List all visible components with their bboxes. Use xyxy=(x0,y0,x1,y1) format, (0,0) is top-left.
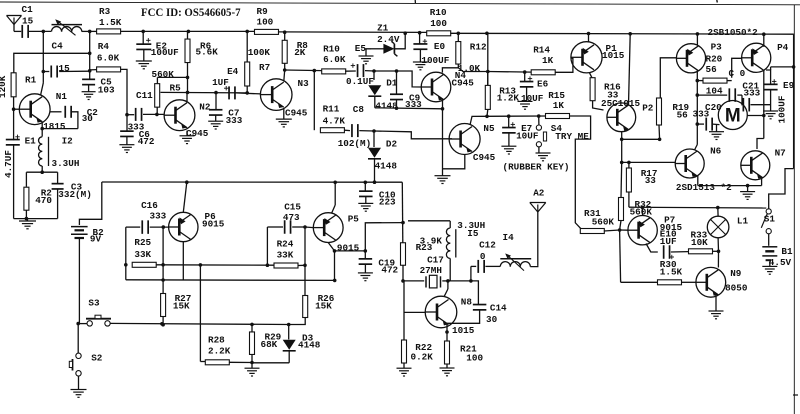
value 100UF (E0) xyxy=(421,55,449,66)
transistor P5 9015 xyxy=(313,213,343,243)
svg-text:100: 100 xyxy=(430,18,447,29)
svg-text:C945: C945 xyxy=(186,128,209,139)
transistor P4 2SB1050 xyxy=(742,43,771,72)
wire N6 collector xyxy=(695,145,698,151)
wire xyxy=(235,91,260,95)
svg-text:N5: N5 xyxy=(483,123,495,134)
svg-text:C945: C945 xyxy=(285,108,308,119)
svg-text:1UF: 1UF xyxy=(660,236,677,247)
label C3 xyxy=(71,181,83,192)
value 470 xyxy=(35,195,52,206)
resistor R22 0.2K xyxy=(402,340,407,363)
svg-text:I2: I2 xyxy=(62,135,74,146)
wire xyxy=(485,109,489,118)
label Z1 xyxy=(377,23,389,34)
switch S3 xyxy=(76,315,111,326)
svg-text:100: 100 xyxy=(466,352,483,363)
ground (Z1) xyxy=(359,56,374,64)
value 333 (C20) xyxy=(693,109,710,120)
label N1 xyxy=(56,91,68,102)
wire xyxy=(593,101,604,110)
wire xyxy=(251,355,253,363)
svg-text:C17: C17 xyxy=(427,255,444,266)
svg-text:N2: N2 xyxy=(199,101,211,112)
resistor R5 560K xyxy=(155,84,160,108)
label R22 xyxy=(415,342,432,353)
switch S1 xyxy=(761,209,771,246)
wire xyxy=(14,217,58,221)
label N3 xyxy=(298,78,310,89)
value 30 (C2) xyxy=(82,113,94,124)
label C20 xyxy=(705,102,722,113)
wire P3 collector xyxy=(696,34,698,45)
label R14 xyxy=(533,45,550,56)
label R28 xyxy=(208,334,225,345)
svg-text:100: 100 xyxy=(257,16,274,27)
wire xyxy=(110,322,289,326)
resistor R6 5.6K xyxy=(185,31,190,62)
ground (E6) xyxy=(518,101,533,109)
wire N6/N7 emitters xyxy=(698,176,762,188)
label R12 xyxy=(470,41,487,52)
electrolytic E0 100UF xyxy=(413,33,427,62)
label E7 xyxy=(521,123,532,134)
value 10UF (E6) xyxy=(521,93,544,104)
wire xyxy=(717,251,719,267)
resistor R10b 6.0K xyxy=(322,69,346,74)
svg-text:E6: E6 xyxy=(537,78,549,89)
svg-text:2.2K: 2.2K xyxy=(208,346,231,357)
label R31 xyxy=(584,208,601,219)
value 333 (C7) xyxy=(226,115,243,126)
ground (E2) xyxy=(136,61,152,69)
capacitor C19 472 xyxy=(359,251,373,273)
wire xyxy=(555,58,573,72)
page top border xyxy=(0,0,800,5)
svg-text:100UF: 100UF xyxy=(421,55,449,66)
wire P6 emitter xyxy=(182,242,184,280)
label R2 xyxy=(41,188,53,199)
svg-text:4148: 4148 xyxy=(375,161,398,172)
label R10 xyxy=(430,7,447,18)
label R4 xyxy=(98,41,110,52)
value 1K (R14) xyxy=(542,55,554,66)
label R23 xyxy=(416,242,433,253)
value 6.0K (R10b) xyxy=(323,54,346,65)
svg-text:15: 15 xyxy=(22,16,34,27)
svg-text:4148: 4148 xyxy=(375,101,398,112)
svg-text:R28: R28 xyxy=(208,334,225,345)
label D3 xyxy=(302,333,314,344)
capacitor C15 473 xyxy=(267,220,306,234)
variable inductor (tuning coil) xyxy=(52,19,83,35)
label N7 xyxy=(775,147,786,158)
wire N8 emitter xyxy=(445,325,449,342)
label R3 xyxy=(99,6,111,17)
label R25 xyxy=(134,237,151,248)
wire xyxy=(375,106,445,110)
wire N5 base xyxy=(374,131,452,139)
wire N5 emitter xyxy=(443,155,465,169)
svg-text:R20: R20 xyxy=(706,53,723,64)
electrolytic E6 10UF xyxy=(520,72,534,101)
value 1015 (N8) xyxy=(452,325,475,336)
label S4 xyxy=(551,123,563,134)
ground (left column) xyxy=(19,219,36,229)
label C1 xyxy=(22,4,34,15)
ground (C7) xyxy=(208,121,223,129)
antenna A2 xyxy=(530,203,546,266)
wire xyxy=(229,361,254,365)
resistor R20 56 xyxy=(703,78,727,83)
label N8 xyxy=(461,296,473,307)
svg-text:10UF: 10UF xyxy=(516,131,539,142)
wire P6 collector xyxy=(183,182,187,212)
resistor R11 4.7K xyxy=(314,71,350,133)
svg-text:C11: C11 xyxy=(136,90,153,101)
resistor R17 33 xyxy=(626,161,631,192)
value 33 (R16) xyxy=(607,89,619,100)
inductor I5 3.3UH xyxy=(408,221,456,283)
svg-text:R10: R10 xyxy=(430,7,447,18)
ground (R21) xyxy=(440,364,455,376)
svg-text:R23: R23 xyxy=(416,242,433,253)
transistor N2 C945 xyxy=(164,100,195,131)
label C9 xyxy=(409,92,421,103)
value C945 (N4) xyxy=(452,77,475,88)
svg-text:8050: 8050 xyxy=(725,283,748,294)
label C 0 xyxy=(729,68,746,79)
zener Z1 2.4V xyxy=(366,33,405,56)
label R13 xyxy=(499,85,516,96)
value 56 (R19) xyxy=(677,110,689,121)
value 100UF (E9) xyxy=(777,95,788,123)
wire R6 to R5 xyxy=(157,63,189,93)
label D1 xyxy=(386,78,398,89)
wire P5 emitter xyxy=(328,243,336,283)
resistor R13 1.2K xyxy=(485,85,490,109)
wire N6 base xyxy=(622,161,676,163)
capacitor C21 333 xyxy=(742,95,771,111)
svg-text:C 0: C 0 xyxy=(729,68,746,79)
svg-text:25C1015: 25C1015 xyxy=(601,98,640,109)
label R16 xyxy=(604,82,621,93)
wire detector node xyxy=(372,69,376,80)
transistor N9 8050 xyxy=(696,267,726,297)
wire main supply rail xyxy=(450,32,794,37)
value 68K (R29) xyxy=(261,339,278,350)
value 9015 (P5) xyxy=(337,243,360,254)
label E9 xyxy=(783,80,795,91)
svg-text:4.7UF: 4.7UF xyxy=(3,150,14,178)
resistor R28 2.2K xyxy=(205,360,229,365)
wire N4 base xyxy=(374,71,421,87)
svg-text:N3: N3 xyxy=(298,78,310,89)
svg-text:3.3UH: 3.3UH xyxy=(52,158,80,169)
wire xyxy=(488,70,532,74)
electrolytic E5 0.1UF xyxy=(345,63,374,77)
wire R4 to lower section xyxy=(121,69,129,131)
value 1815 xyxy=(43,121,66,132)
wire xyxy=(77,324,79,353)
svg-text:1.2K: 1.2K xyxy=(497,92,520,103)
wire P4 base xyxy=(732,58,742,78)
svg-text:333: 333 xyxy=(150,211,167,222)
value 472 (C19) xyxy=(381,265,398,276)
transistor P2 25C1015 xyxy=(607,103,636,132)
svg-text:R4: R4 xyxy=(98,41,110,52)
wire P2 collector xyxy=(629,34,631,105)
svg-text:R1: R1 xyxy=(25,75,37,86)
label P1 xyxy=(606,43,618,54)
wire P4 collector branch xyxy=(763,34,765,47)
svg-text:473: 473 xyxy=(283,212,300,223)
value 2.4V xyxy=(377,34,400,45)
transistor N7 2SD1513 xyxy=(741,151,770,180)
svg-text:560K: 560K xyxy=(152,69,175,80)
svg-text:N9: N9 xyxy=(730,268,742,279)
svg-text:9015: 9015 xyxy=(337,243,360,254)
svg-text:R11: R11 xyxy=(323,103,340,114)
svg-text:6.0K: 6.0K xyxy=(97,52,120,63)
value 333 (C21) xyxy=(744,88,761,99)
svg-text:120K: 120K xyxy=(0,75,8,98)
wire P5 base xyxy=(305,226,313,229)
value 102(M) xyxy=(338,138,371,149)
ground (N2) xyxy=(180,131,195,144)
label C16 xyxy=(141,200,158,211)
wire collector row xyxy=(161,91,248,95)
label C10 xyxy=(379,189,396,200)
svg-text:2SB1050*2: 2SB1050*2 xyxy=(708,27,759,38)
switch S2 xyxy=(69,353,81,389)
resistor R3 1.5K xyxy=(97,29,121,34)
resistor R2 470 xyxy=(24,187,29,218)
wire P7 collector xyxy=(646,244,658,253)
ground (C19) xyxy=(358,273,373,281)
wire xyxy=(604,228,621,232)
value 560K (R32) xyxy=(630,207,653,218)
wire xyxy=(757,70,764,149)
label B1 xyxy=(781,246,793,257)
value C945 (N5) xyxy=(473,152,496,163)
svg-text:R25: R25 xyxy=(134,237,151,248)
svg-text:R12: R12 xyxy=(470,41,487,52)
label R32 xyxy=(635,199,652,210)
variable inductor I4 xyxy=(500,253,538,270)
wire xyxy=(283,63,322,72)
wire xyxy=(266,227,270,267)
wire xyxy=(696,79,732,83)
capacitor 104 xyxy=(697,88,742,102)
svg-text:2.4V: 2.4V xyxy=(377,34,400,45)
svg-text:472: 472 xyxy=(381,265,398,276)
transistor N8 1015 xyxy=(425,296,457,328)
battery B2 9V xyxy=(71,227,88,324)
capacitor C20 333 xyxy=(697,118,719,131)
svg-text:P2: P2 xyxy=(642,103,654,114)
svg-text:B1: B1 xyxy=(781,246,793,257)
resistor R32 560K xyxy=(619,162,624,220)
value 472 (C6) xyxy=(138,136,155,147)
wire xyxy=(42,31,46,73)
value 4148 (D1) xyxy=(375,101,398,112)
svg-text:15K: 15K xyxy=(173,300,190,311)
ground (C6) xyxy=(119,145,134,153)
svg-text:S1: S1 xyxy=(764,214,776,225)
svg-text:(RUBBER KEY): (RUBBER KEY) xyxy=(503,161,570,172)
label R11 xyxy=(323,103,340,114)
value 120K xyxy=(0,75,8,98)
ground (A2 base) xyxy=(78,388,80,390)
label E10 xyxy=(660,229,677,240)
svg-text:N1: N1 xyxy=(56,91,68,102)
value 1.5K (R30) xyxy=(660,266,683,277)
svg-text:472: 472 xyxy=(138,136,155,147)
label C5 xyxy=(101,76,113,87)
svg-text:C4: C4 xyxy=(52,41,64,52)
capacitor C14 30 xyxy=(447,281,486,323)
label R29 xyxy=(265,332,282,343)
capacitor C16 333 xyxy=(126,220,169,234)
label I5 xyxy=(467,228,479,239)
ground (C5) xyxy=(82,92,96,100)
resistor R14 1K xyxy=(531,70,555,75)
motor M xyxy=(718,101,747,130)
label R33 xyxy=(691,230,708,241)
resistor R16 33 xyxy=(590,73,596,101)
wire lower supply rail xyxy=(102,180,403,184)
svg-text:333: 333 xyxy=(405,99,422,110)
label S1 xyxy=(764,214,776,225)
transistor N5 C945 xyxy=(449,124,480,155)
ground (C20/motor) xyxy=(709,124,724,139)
label P7 xyxy=(664,214,675,225)
value 33K (R24) xyxy=(277,250,294,261)
svg-text:P5: P5 xyxy=(348,214,360,225)
value 100K (R7) xyxy=(248,47,271,58)
switch S4 xyxy=(536,116,546,153)
svg-text:1K: 1K xyxy=(553,100,565,111)
value 4.7K (R11) xyxy=(323,115,346,126)
wire R15 to R31 xyxy=(570,116,591,229)
value 560K (R31) xyxy=(592,217,615,228)
value 8050 xyxy=(725,283,748,294)
value 1.0K (R12) xyxy=(458,63,481,74)
svg-text:R14: R14 xyxy=(533,45,550,56)
transistor P6 9015 xyxy=(169,212,198,241)
value 15K (R27) xyxy=(173,300,190,311)
transistor N6 2SD1513 xyxy=(675,149,704,178)
wire rail to R13 xyxy=(486,33,490,85)
wire N1 collector xyxy=(41,72,44,96)
svg-text:E4: E4 xyxy=(227,66,239,77)
value 15K (R26) xyxy=(315,301,332,312)
svg-text:C945: C945 xyxy=(452,77,475,88)
label I4 xyxy=(503,232,515,243)
label C6 xyxy=(139,129,151,140)
svg-text:333: 333 xyxy=(744,88,761,99)
svg-text:N6: N6 xyxy=(710,146,722,157)
svg-text:10K: 10K xyxy=(691,237,708,248)
value 6.0K xyxy=(97,52,120,63)
label R1 xyxy=(25,75,37,86)
label R8 xyxy=(297,40,309,51)
svg-text:1015: 1015 xyxy=(452,325,475,336)
svg-text:A2: A2 xyxy=(533,187,545,198)
label S3 xyxy=(88,298,100,309)
resistor R19 56 xyxy=(657,98,662,125)
svg-text:Z1: Z1 xyxy=(377,23,389,34)
wire P2 emitter chain xyxy=(620,132,624,164)
svg-text:560K: 560K xyxy=(592,217,615,228)
capacitor C5 103 xyxy=(82,71,95,92)
svg-text:33: 33 xyxy=(645,175,657,186)
value 1UF (E4) xyxy=(212,77,229,88)
wire xyxy=(365,221,405,251)
electrolytic E9 100UF xyxy=(764,65,796,111)
capacitor C11 333 xyxy=(127,108,164,121)
wire xyxy=(161,317,165,327)
resistor R33 10K xyxy=(689,249,713,254)
ground (E0) xyxy=(413,62,428,70)
wire xyxy=(12,97,16,140)
label C21 xyxy=(742,80,759,91)
label P4 xyxy=(777,42,789,53)
svg-text:102(M): 102(M) xyxy=(338,138,371,149)
label TRY ME xyxy=(555,131,589,142)
svg-text:TRY ME: TRY ME xyxy=(555,131,589,142)
svg-text:332(M): 332(M) xyxy=(58,189,91,200)
svg-text:E0: E0 xyxy=(434,41,446,52)
value 10UF (E7) xyxy=(516,131,539,142)
label R15 xyxy=(548,90,565,101)
wire xyxy=(335,249,368,253)
wire xyxy=(200,265,205,362)
electrolytic E2 100UF xyxy=(136,31,151,60)
wire xyxy=(124,227,128,280)
wire P7 emitter xyxy=(641,207,643,215)
svg-text:1815: 1815 xyxy=(43,121,66,132)
label C17 xyxy=(427,255,444,266)
value 1.5K xyxy=(99,17,122,28)
label R9 xyxy=(257,6,269,17)
value 10K (R33) xyxy=(691,237,708,248)
wire N1 base xyxy=(14,108,20,110)
label N2 xyxy=(199,101,211,112)
value 2K (R8) xyxy=(294,47,306,58)
wire xyxy=(442,115,444,117)
svg-text:68K: 68K xyxy=(261,339,278,350)
wire xyxy=(487,114,546,118)
transistor N1 1815 xyxy=(19,94,50,125)
label L1 xyxy=(737,215,749,226)
svg-text:R7: R7 xyxy=(259,62,270,73)
label D2 xyxy=(386,139,398,150)
label P2 xyxy=(642,103,654,114)
svg-text:C945: C945 xyxy=(473,152,496,163)
resistor R9 100 xyxy=(255,29,279,34)
wire xyxy=(29,30,51,34)
wire xyxy=(26,166,57,187)
wire xyxy=(161,227,165,293)
electrolytic E7 10UF xyxy=(502,116,516,146)
transistor P7 9015 xyxy=(628,216,657,245)
value 2.2K (R28) xyxy=(208,346,231,357)
wire xyxy=(442,64,487,85)
inductor I2 3.3UH xyxy=(39,137,49,166)
value 9015 (P6) xyxy=(202,219,225,230)
